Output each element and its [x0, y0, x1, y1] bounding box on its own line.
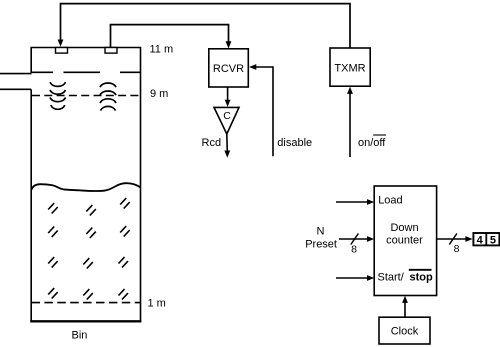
svg-text:C: C	[223, 110, 231, 122]
svg-text:Down: Down	[390, 222, 418, 234]
svg-text:N: N	[317, 226, 325, 238]
bus slash output	[449, 234, 457, 245]
svg-text:on/off: on/off	[358, 137, 386, 149]
label N Preset	[305, 226, 337, 251]
wire disable to RCVR	[255, 67, 273, 156]
TXMR U2	[330, 48, 370, 86]
1 m level dashed line	[32, 302, 141, 304]
bin bottom	[30, 320, 141, 322]
wire Load input	[336, 201, 368, 203]
wire comparator output Rcd	[226, 134, 229, 152]
inlet chute top line	[0, 73, 32, 75]
svg-text:Rcd: Rcd	[202, 137, 222, 149]
wire RCVR to comparator	[227, 87, 229, 101]
wire clock to counter	[404, 301, 406, 317]
svg-text:4: 4	[477, 234, 484, 246]
svg-text:9 m: 9 m	[150, 88, 168, 100]
svg-text:8: 8	[454, 243, 460, 255]
svg-text:11 m: 11 m	[150, 44, 174, 56]
down counter U3	[374, 186, 436, 296]
wire Start/stop input	[336, 277, 368, 279]
svg-text:Start/: Start/	[378, 272, 405, 284]
svg-text:1 m: 1 m	[148, 297, 166, 309]
svg-text:disable: disable	[277, 137, 312, 149]
svg-text:8: 8	[351, 244, 357, 256]
transducer T1 (transmit)	[56, 48, 68, 54]
transducer T2 (receive)	[105, 48, 117, 54]
wire TXMR to transducer T1	[61, 4, 351, 48]
display register 4|5	[473, 233, 499, 246]
wire transducer T2 to RCVR	[111, 25, 229, 47]
RCVR U1	[209, 49, 249, 87]
svg-text:Preset: Preset	[305, 239, 337, 251]
svg-text:Bin: Bin	[72, 330, 88, 342]
ultrasonic transmit arcs	[50, 82, 66, 109]
svg-text:counter: counter	[386, 235, 423, 247]
wire on/off to TXMR	[349, 93, 351, 158]
11 m level long-dash line	[31, 71, 141, 73]
label on/off	[358, 135, 386, 149]
comparator C	[214, 107, 239, 134]
material surface	[31, 183, 140, 191]
svg-text:Load: Load	[378, 195, 402, 207]
bus slash Preset	[351, 234, 359, 245]
wire counter output bus	[437, 238, 466, 240]
inlet chute bottom line	[0, 88, 31, 90]
svg-text:TXMR: TXMR	[334, 63, 365, 75]
clock	[379, 317, 430, 344]
bin left wall lower	[30, 89, 32, 321]
ultrasonic echo arcs	[100, 83, 116, 111]
svg-text:RCVR: RCVR	[213, 63, 244, 75]
svg-text:5: 5	[490, 234, 496, 246]
svg-text:stop: stop	[410, 272, 434, 284]
material hatch marks	[48, 198, 130, 299]
9 m level dashed line	[32, 95, 140, 97]
wire Preset input bus	[339, 238, 368, 240]
bin outline	[31, 48, 140, 322]
svg-text:Clock: Clock	[391, 326, 419, 338]
